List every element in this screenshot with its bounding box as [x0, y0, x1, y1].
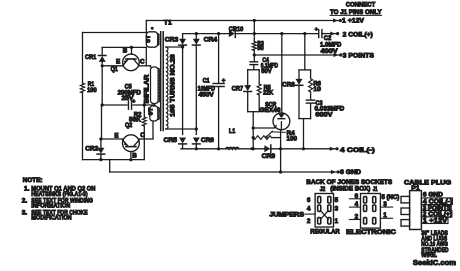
svg-text:GEX46: GEX46 [260, 107, 282, 114]
svg-text:600V: 600V [315, 111, 333, 118]
svg-text:(INSIDE BOX): (INSIDE BOX) [330, 186, 370, 193]
svg-text:1 +12V: 1 +12V [342, 18, 365, 25]
svg-text:REGULAR: REGULAR [310, 229, 340, 236]
svg-text:400V: 400V [321, 48, 339, 55]
svg-text:CONNECT: CONNECT [346, 2, 376, 9]
svg-text:6: 6 [355, 193, 359, 200]
svg-text:ELECTRONIC: ELECTRONIC [346, 229, 396, 236]
svg-text:6 GND: 6 GND [340, 169, 361, 176]
svg-text:E: E [116, 58, 120, 65]
svg-text:C1: C1 [203, 78, 210, 85]
svg-text:CR8: CR8 [282, 81, 295, 88]
svg-text:5 (NC): 5 (NC) [382, 194, 400, 201]
svg-text:B: B [123, 48, 128, 55]
svg-text:BIFILAR: BIFILAR [145, 74, 151, 104]
svg-text:CR10: CR10 [229, 26, 244, 33]
svg-text:25V: 25V [122, 95, 135, 102]
svg-text:E: E [114, 132, 118, 139]
svg-text:1.: 1. [24, 185, 30, 192]
svg-text:6 GND: 6 GND [423, 191, 443, 198]
svg-text:T1: T1 [164, 20, 172, 27]
svg-text:CR4: CR4 [204, 36, 218, 43]
svg-text:CR9: CR9 [262, 153, 276, 160]
svg-text:C: C [140, 132, 145, 139]
svg-text:TO J1 PINS ONLY: TO J1 PINS ONLY [330, 9, 382, 16]
svg-text:10: 10 [313, 86, 321, 93]
svg-text:1: 1 [335, 218, 339, 225]
svg-text:9T: 9T [146, 35, 152, 43]
svg-text:50V: 50V [261, 68, 272, 75]
svg-text:B: B [132, 152, 137, 159]
svg-text:Q1: Q1 [111, 66, 119, 73]
svg-text:56K: 56K [129, 117, 141, 124]
svg-text:4 COIL(-): 4 COIL(-) [340, 147, 375, 154]
svg-text:2 COIL(+): 2 COIL(+) [343, 31, 373, 38]
svg-text:50: 50 [257, 45, 264, 52]
svg-text:CR1: CR1 [85, 54, 97, 61]
svg-text:165 TURNS NO.28: 165 TURNS NO.28 [169, 54, 176, 117]
svg-text:9T: 9T [149, 107, 155, 115]
svg-text:2: 2 [355, 214, 359, 221]
svg-text:6: 6 [307, 197, 311, 204]
svg-text:450V: 450V [199, 92, 215, 99]
svg-text:+: + [222, 78, 226, 85]
svg-text:1: 1 [383, 212, 387, 219]
svg-text:L1: L1 [229, 128, 236, 135]
svg-text:100: 100 [287, 136, 298, 143]
svg-text:2.: 2. [22, 197, 28, 204]
svg-text:JUMPERS: JUMPERS [269, 212, 304, 219]
svg-text:3: 3 [335, 206, 339, 213]
svg-text:CR2: CR2 [85, 145, 98, 152]
svg-text:MODIFICATION: MODIFICATION [31, 215, 72, 222]
svg-text:CR3: CR3 [165, 36, 179, 43]
svg-text:CR5: CR5 [164, 137, 178, 144]
svg-text:4: 4 [307, 206, 311, 213]
svg-text:3.: 3. [22, 209, 28, 216]
svg-text:J1: J1 [373, 186, 378, 193]
svg-text:2: 2 [307, 218, 311, 225]
svg-text:SeekIC.com: SeekIC.com [413, 258, 456, 267]
svg-text:3: 3 [383, 201, 387, 208]
svg-text:3 POINTS: 3 POINTS [343, 52, 375, 59]
svg-text:1 +12V: 1 +12V [423, 217, 449, 224]
svg-text:22K: 22K [263, 89, 273, 96]
svg-text:4: 4 [355, 201, 359, 208]
svg-text:C: C [140, 58, 145, 65]
svg-text:100: 100 [87, 87, 97, 94]
svg-text:CR7: CR7 [232, 85, 244, 92]
svg-text:J2: J2 [320, 186, 326, 193]
svg-text:5: 5 [335, 197, 339, 204]
svg-text:NOTE:: NOTE: [23, 177, 43, 184]
svg-text:CR6: CR6 [201, 137, 214, 144]
